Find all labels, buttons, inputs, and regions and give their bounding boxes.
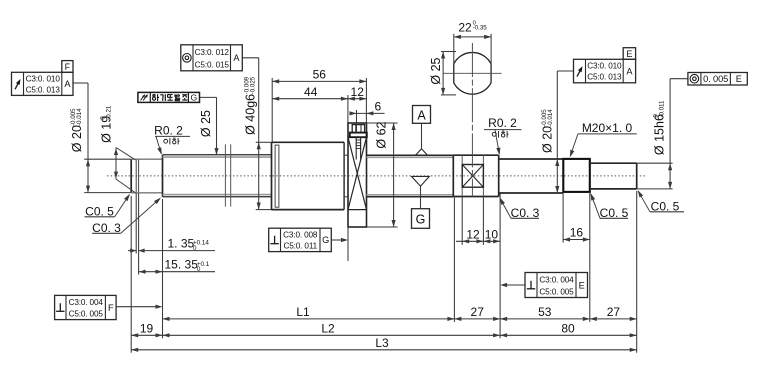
circle crosshair horizontal (443, 72, 501, 74)
dim 16 (562, 192, 564, 242)
svg-text:44: 44 (304, 85, 318, 99)
datum G target (412, 209, 430, 229)
svg-text:C5:0. 013: C5:0. 013 (26, 85, 61, 94)
svg-text:C3:0. 012: C3:0. 012 (195, 48, 230, 57)
FCF bottom-right perpendicularity datum E (525, 273, 588, 298)
datum A target (413, 106, 431, 124)
svg-text:-0.025: -0.025 (250, 76, 257, 94)
svg-text:Ø 25: Ø 25 (429, 57, 443, 84)
svg-text:C3:0. 010: C3:0. 010 (26, 75, 61, 84)
svg-text:C3:0. 008: C3:0. 008 (283, 231, 318, 240)
wrench flat side lines (461, 155, 463, 196)
circle vertical centerline long (471, 43, 473, 197)
dim D15h6 with leader from frame (637, 162, 673, 164)
snap ring groove D19 (135, 160, 137, 193)
dim D25 circle (442, 52, 444, 95)
svg-text:Ø 20: Ø 20 (70, 125, 84, 152)
row L1 27 53 27 (163, 318, 637, 320)
clamp bolt head (352, 125, 364, 133)
svg-text:E: E (579, 280, 585, 290)
svg-text:C5:0. 005: C5:0. 005 (69, 309, 104, 318)
svg-text:19: 19 (140, 321, 154, 335)
svg-text:L2: L2 (321, 321, 335, 335)
flat edges / ext lines for 22 (453, 34, 455, 83)
note korean text placeholder (153, 94, 156, 96)
shaft section D25 left outer (163, 154, 272, 156)
svg-text:-0.21: -0.21 (106, 105, 113, 120)
wrench flat cross (462, 165, 483, 188)
svg-text:R0. 2: R0. 2 (154, 123, 183, 137)
svg-text:15. 35: 15. 35 (165, 258, 199, 272)
ext lines top dims (271, 78, 273, 142)
svg-text:27: 27 (607, 305, 621, 319)
end journal D15h6 (590, 162, 637, 164)
dim 44 and 12 (272, 98, 366, 100)
svg-text:56: 56 (313, 68, 327, 82)
dim D40g6 (256, 141, 272, 143)
dim D62 (367, 122, 398, 124)
svg-text:-0.014: -0.014 (76, 108, 83, 126)
svg-text:27: 27 (471, 305, 485, 319)
FCF far-right concentricity 0.005 datum E (688, 73, 747, 86)
svg-text:6: 6 (375, 100, 382, 114)
svg-text:80: 80 (561, 321, 575, 335)
ball screw section outer lines (367, 154, 454, 156)
svg-text:L3: L3 (375, 336, 389, 350)
row L3 (131, 349, 637, 351)
svg-text:0. 005: 0. 005 (703, 74, 728, 84)
right journal D20 (499, 158, 564, 160)
svg-text:F: F (65, 62, 71, 72)
dim D20 right with leader from frame (556, 71, 558, 193)
svg-text:Ø 40g6: Ø 40g6 (244, 94, 258, 135)
note symbol double arrows (141, 95, 145, 101)
step face to D25 (162, 155, 164, 197)
dim 12 and 10 (456, 240, 500, 242)
svg-text:G: G (322, 235, 329, 245)
svg-text:-0.011: -0.011 (659, 100, 666, 118)
svg-text:A: A (64, 79, 71, 89)
svg-text:22: 22 (458, 20, 472, 34)
dim D20 left with leader from frame (84, 158, 131, 160)
svg-text:-0.014: -0.014 (547, 109, 554, 127)
svg-text:Ø 62: Ø 62 (375, 121, 389, 148)
svg-text:R0. 2: R0. 2 (488, 116, 517, 130)
dim D19 groove with oblique extensions (115, 148, 117, 180)
thread M20x1.0 (563, 159, 590, 192)
svg-text:C3:0. 010: C3:0. 010 (587, 62, 622, 71)
dim 15.35 (139, 271, 215, 273)
row 19 L2 80 (131, 334, 637, 336)
svg-text:C5:0. 015: C5:0. 015 (195, 60, 230, 69)
svg-text:1. 35: 1. 35 (168, 237, 195, 251)
centerline (107, 175, 647, 177)
svg-text:G: G (191, 93, 198, 103)
dim D25 callout with G-note leader (200, 96, 217, 98)
joint lines on D25 (224, 144, 226, 206)
svg-text:A: A (626, 66, 633, 76)
svg-text:0: 0 (193, 245, 197, 252)
surface treatment note box with G (138, 92, 200, 102)
svg-text:C5:0. 013: C5:0. 013 (587, 73, 622, 82)
svg-text:E: E (626, 49, 632, 59)
FCF top-left runout C3/C5 datum A with F tab (12, 72, 74, 95)
dim 22 (454, 36, 491, 38)
collar D25 with wrench flats (452, 155, 454, 196)
ball screw root lines (367, 156, 454, 158)
FCF bottom-left perpendicularity datum F (55, 295, 117, 319)
svg-text:G: G (416, 213, 426, 227)
svg-text:12: 12 (351, 85, 365, 99)
svg-text:L1: L1 (296, 305, 310, 319)
svg-text:12: 12 (466, 228, 480, 242)
note under R0.2 left (Korean: or less) (164, 139, 168, 143)
shaft section D25 left root lines (163, 156, 272, 158)
wrench flat box (462, 165, 483, 188)
nut face ext line down (347, 227, 349, 261)
svg-text:16: 16 (570, 225, 584, 239)
svg-text:10: 10 (485, 228, 499, 242)
svg-text:C3:0. 004: C3:0. 004 (69, 298, 104, 307)
dim 6 (351, 112, 385, 114)
D40 flange and body (271, 142, 273, 209)
ball nut block D62 (348, 123, 367, 227)
svg-text:A: A (233, 53, 240, 63)
svg-text:E: E (736, 74, 742, 84)
svg-text:C5:0. 005: C5:0. 005 (539, 287, 574, 296)
svg-text:A: A (417, 109, 426, 123)
dim 56 (272, 80, 366, 82)
bottom ext lines (130, 196, 132, 353)
dim 1.35 (139, 250, 215, 252)
svg-text:0: 0 (197, 266, 201, 273)
flange inner relief rect (275, 145, 279, 207)
section view circle D25 with flats (454, 52, 491, 94)
FCF top-right runout C3/C5 datum A with E tab (574, 59, 636, 83)
bolt washer plate (350, 133, 367, 138)
nut cross bracing (348, 137, 367, 209)
svg-text:53: 53 (538, 305, 552, 319)
FCF bottom-mid perpendicularity datum G (269, 228, 332, 251)
shaft left journal D20 (130, 159, 132, 192)
svg-text:C3:0. 004: C3:0. 004 (539, 276, 574, 285)
svg-text:C5:0. 011: C5:0. 011 (283, 242, 317, 251)
svg-text:M20×1. 0: M20×1. 0 (582, 121, 633, 135)
svg-text:Ø 15h6: Ø 15h6 (653, 114, 667, 155)
ext lines flats dims (461, 197, 463, 245)
svg-text:Ø 25: Ø 25 (199, 110, 213, 137)
svg-text:F: F (108, 303, 114, 313)
ext lines groove dims (135, 193, 137, 254)
svg-text:-0.35: -0.35 (473, 24, 488, 31)
screw stub between body and nut (344, 154, 348, 156)
bolt shank (355, 137, 357, 159)
FCF top-mid concentricity C3/C5 datum A (181, 45, 243, 71)
svg-text:Ø 20: Ø 20 (541, 126, 555, 153)
